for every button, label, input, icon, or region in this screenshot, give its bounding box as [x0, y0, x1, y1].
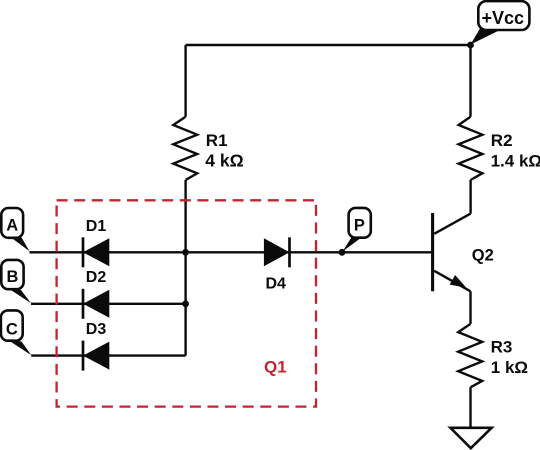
svg-text:R3: R3: [491, 338, 513, 357]
svg-text:Q2: Q2: [472, 246, 494, 264]
svg-text:1.4 kΩ: 1.4 kΩ: [491, 151, 540, 170]
svg-text:A: A: [6, 217, 18, 235]
svg-text:4 kΩ: 4 kΩ: [205, 150, 243, 170]
svg-text:+Vcc: +Vcc: [482, 8, 525, 28]
svg-text:C: C: [6, 320, 18, 338]
svg-text:Q1: Q1: [264, 358, 287, 377]
svg-text:D4: D4: [266, 276, 287, 293]
svg-text:B: B: [6, 268, 18, 286]
svg-text:1 kΩ: 1 kΩ: [491, 358, 528, 377]
svg-text:P: P: [354, 217, 365, 235]
svg-text:D3: D3: [86, 321, 107, 338]
svg-text:R2: R2: [491, 131, 513, 150]
svg-text:D2: D2: [86, 269, 107, 286]
svg-text:R1: R1: [206, 131, 228, 150]
svg-text:D1: D1: [86, 218, 107, 235]
